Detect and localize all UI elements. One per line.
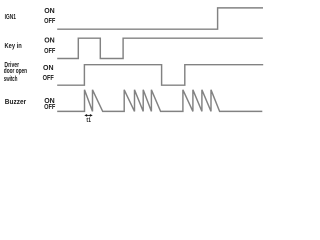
svg-text:OFF: OFF: [44, 102, 56, 111]
svg-text:Key in: Key in: [5, 41, 23, 50]
svg-text:OFF: OFF: [44, 46, 56, 55]
svg-text:ON: ON: [44, 36, 55, 45]
wire Key in waveform: two ON pulses: [57, 38, 263, 58]
svg-text:OFF: OFF: [44, 16, 56, 25]
wire Driver door waveform: ON with one OFF notch: [57, 65, 263, 86]
dimension arrow t1 (buzzer tooth period): [84, 114, 92, 117]
svg-text:Buzzer: Buzzer: [5, 97, 26, 106]
svg-text:t1: t1: [86, 117, 91, 124]
svg-text:IGN1: IGN1: [5, 12, 16, 21]
svg-text:ON: ON: [44, 6, 55, 15]
svg-text:ON: ON: [43, 63, 54, 72]
svg-text:switch: switch: [4, 74, 18, 83]
wire IGN1 waveform: OFF then ON step: [57, 8, 263, 29]
svg-text:OFF: OFF: [43, 73, 55, 82]
wire Buzzer waveform: three sawtooth bursts: [57, 90, 262, 112]
